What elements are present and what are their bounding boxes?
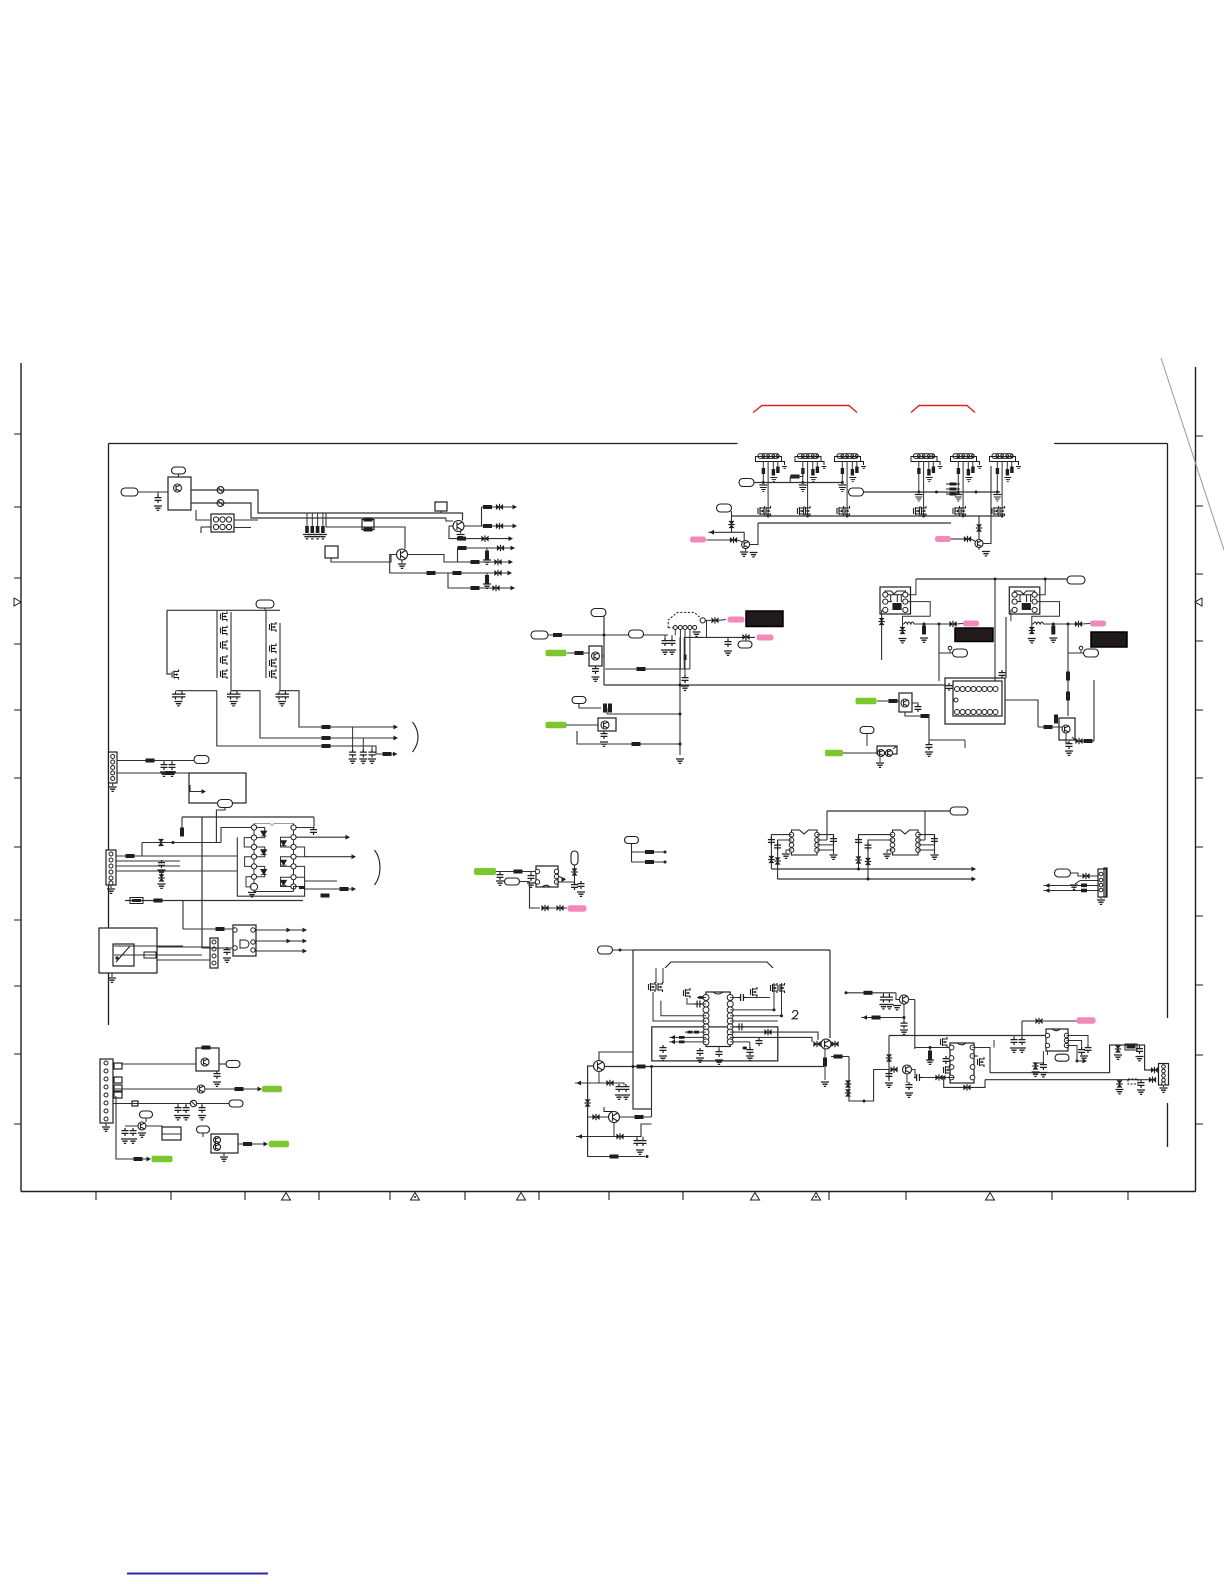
discrete fet xyxy=(656,982,663,992)
callout black 1 xyxy=(746,611,783,627)
capacitor xyxy=(158,860,165,868)
wire xyxy=(888,993,890,996)
wire xyxy=(893,746,897,749)
wire bus A xyxy=(754,482,843,484)
connector pins xyxy=(212,940,216,944)
wire stub bus xyxy=(305,512,323,514)
wire xyxy=(202,947,233,949)
ground xyxy=(965,478,972,482)
resistor xyxy=(823,1058,827,1067)
capacitor xyxy=(756,1038,763,1046)
net label VCC xyxy=(256,600,274,608)
wire drain rail 2 xyxy=(279,623,281,691)
ground xyxy=(1070,885,1078,889)
wire xyxy=(737,540,742,542)
junction xyxy=(743,1047,746,1050)
wire xyxy=(812,462,814,470)
capacitor xyxy=(811,469,814,476)
ground xyxy=(994,497,1001,501)
switch box xyxy=(99,928,157,973)
junction xyxy=(619,949,622,952)
capacitor xyxy=(601,731,608,739)
diode xyxy=(1033,1062,1039,1069)
wire xyxy=(994,579,996,681)
wire xyxy=(642,1137,644,1140)
ground xyxy=(1039,1073,1047,1077)
wire xyxy=(632,851,666,853)
junction xyxy=(996,491,999,494)
wire xyxy=(978,548,980,551)
resistor xyxy=(383,752,392,756)
net label vertical xyxy=(571,851,578,865)
wire xyxy=(632,861,666,863)
red callout arc 2 xyxy=(911,406,975,413)
wire bus D xyxy=(758,522,951,524)
resistor pack xyxy=(946,483,960,485)
blue footer line xyxy=(127,1573,268,1575)
wire xyxy=(1067,1036,1089,1047)
arrow xyxy=(393,752,398,757)
resistor xyxy=(791,475,800,479)
jumper xyxy=(132,1101,138,1106)
resistor xyxy=(340,887,349,891)
wire xyxy=(605,668,690,670)
junction xyxy=(773,1008,776,1011)
wire out xyxy=(305,856,352,858)
stair right xyxy=(296,847,305,877)
resistor xyxy=(922,626,926,635)
wire xyxy=(918,462,920,493)
capacitor xyxy=(179,692,186,700)
capacitor xyxy=(915,704,922,712)
wire xyxy=(730,997,738,999)
capacitor xyxy=(762,468,765,474)
net label xyxy=(1055,869,1071,877)
resistor xyxy=(694,1031,699,1034)
transistor array Q645 xyxy=(221,640,228,650)
junction xyxy=(923,623,926,626)
wire gate rail 2 xyxy=(265,610,267,678)
wire long xyxy=(588,1066,594,1157)
fet xyxy=(941,1037,948,1047)
wire xyxy=(817,849,834,851)
wire top xyxy=(827,810,950,812)
wire row4 xyxy=(116,1096,148,1159)
junction xyxy=(922,515,925,518)
transistor Q2 xyxy=(453,521,464,532)
ground xyxy=(750,553,758,557)
wire xyxy=(685,1031,706,1033)
ground xyxy=(1016,467,1021,469)
resistor xyxy=(427,571,436,575)
wire xyxy=(157,946,210,948)
diode D xyxy=(261,831,267,836)
transistor xyxy=(959,506,966,516)
junction xyxy=(679,713,682,716)
wire xyxy=(620,1116,652,1118)
wire xyxy=(105,1123,107,1126)
wire xyxy=(577,731,680,744)
inductor L1 xyxy=(904,622,914,624)
transistor Q62 xyxy=(821,1039,831,1049)
wire xyxy=(163,761,165,763)
wire xyxy=(896,993,899,1000)
net label xyxy=(953,649,968,657)
junction xyxy=(841,481,844,484)
resistor xyxy=(154,899,163,903)
diode xyxy=(684,655,687,661)
transistor Q51a xyxy=(878,750,885,757)
wire xyxy=(116,865,180,867)
wire xyxy=(773,993,775,1010)
resistor xyxy=(645,850,654,854)
wire fan3 xyxy=(449,526,510,539)
wire xyxy=(923,462,925,517)
resistor xyxy=(1044,725,1053,729)
wire xyxy=(905,712,921,716)
diode xyxy=(556,905,563,911)
transistor Q60 xyxy=(594,1061,605,1072)
diode xyxy=(606,1080,613,1086)
wire xyxy=(932,462,934,467)
capacitor xyxy=(774,843,781,851)
wire xyxy=(730,1009,774,1011)
ground xyxy=(168,772,176,776)
wire fan5 xyxy=(458,561,511,563)
ground xyxy=(925,752,933,756)
ground xyxy=(1097,900,1105,904)
wire gate rail 1 xyxy=(216,610,218,678)
ground xyxy=(760,488,767,492)
wire xyxy=(557,881,575,883)
arrow xyxy=(562,877,567,882)
callout black 2 xyxy=(955,628,993,642)
diode D xyxy=(261,850,267,855)
bracket xyxy=(413,722,419,752)
wire xyxy=(1043,623,1076,625)
notch xyxy=(957,1043,966,1045)
ground xyxy=(879,1005,887,1009)
ground xyxy=(659,1056,667,1060)
ground xyxy=(822,467,827,469)
ground xyxy=(955,497,962,501)
transistor array Q660 xyxy=(221,655,228,665)
junction xyxy=(806,515,809,518)
wire xyxy=(142,842,221,844)
capacitor xyxy=(999,670,1006,678)
wire xyxy=(1117,1045,1119,1046)
U1 gnd pin xyxy=(250,883,257,890)
transistor array Q648 xyxy=(270,644,277,654)
ground xyxy=(681,686,689,690)
diode D xyxy=(261,869,267,874)
ground xyxy=(782,467,787,469)
bottom tie xyxy=(254,887,300,892)
capacitor xyxy=(360,750,367,758)
transistor array Q674 xyxy=(270,669,277,679)
wire xyxy=(841,462,843,483)
pin chain right xyxy=(293,824,295,887)
capacitor xyxy=(967,469,970,476)
capacitor xyxy=(682,675,689,683)
wire xyxy=(669,1036,706,1038)
wire xyxy=(116,870,237,872)
frame left xyxy=(108,444,110,1026)
diode xyxy=(711,617,718,623)
wire xyxy=(653,992,706,1021)
ground xyxy=(248,893,256,897)
arrow gnd xyxy=(1075,881,1080,885)
wire xyxy=(888,1036,890,1082)
pin header CN8 xyxy=(953,454,974,459)
resistor xyxy=(1054,715,1058,724)
diode xyxy=(585,1099,591,1106)
wire xyxy=(706,620,708,637)
wire xyxy=(574,855,576,882)
input label xyxy=(121,488,138,496)
ferrite xyxy=(1081,884,1087,888)
header socket xyxy=(911,457,937,462)
ground xyxy=(174,1116,182,1120)
arrow xyxy=(972,877,977,882)
ground xyxy=(839,488,846,492)
capacitor xyxy=(1019,1037,1026,1045)
ground xyxy=(715,1060,723,1064)
transistor Q23a xyxy=(214,1137,221,1144)
ground xyxy=(483,560,491,564)
transistor Q21 xyxy=(197,1085,205,1093)
capacitor xyxy=(161,762,168,770)
coil pins xyxy=(1012,592,1017,597)
ground xyxy=(108,978,116,982)
ground xyxy=(885,1083,893,1087)
capacitor xyxy=(841,468,844,474)
wire pair A xyxy=(730,1032,818,1040)
shield Q40 xyxy=(589,646,602,666)
connector pins xyxy=(104,1061,108,1065)
resistor xyxy=(1066,692,1070,701)
wire xyxy=(1032,602,1060,624)
red callout arc 1 xyxy=(753,406,857,413)
wire bus1 xyxy=(191,490,463,521)
net label xyxy=(140,1111,153,1118)
capacitor xyxy=(662,638,669,646)
wire xyxy=(606,708,608,714)
shield Q23 xyxy=(211,1134,238,1153)
wire xyxy=(993,1040,995,1048)
wire xyxy=(234,527,251,529)
wire xyxy=(401,560,403,563)
wire xyxy=(460,532,462,534)
arrow xyxy=(513,524,518,529)
resistor xyxy=(635,1115,644,1119)
capacitor xyxy=(695,1001,703,1008)
resistor xyxy=(608,704,612,713)
ground xyxy=(1018,1048,1026,1052)
resistor xyxy=(575,651,584,655)
capacitor xyxy=(528,873,535,881)
ground xyxy=(883,854,891,858)
wire xyxy=(929,1048,931,1053)
resistor xyxy=(458,546,467,550)
wire xyxy=(598,1072,600,1084)
wire xyxy=(201,1104,203,1106)
wire fan1 xyxy=(482,506,516,508)
diode xyxy=(158,839,164,846)
capacitor xyxy=(1040,1062,1047,1070)
wire xyxy=(181,817,183,829)
highlight green 6 xyxy=(856,698,877,705)
wire xyxy=(903,1004,905,1022)
wire xyxy=(909,999,915,1001)
capacitor xyxy=(932,467,935,474)
wire xyxy=(1001,462,1003,517)
resistor xyxy=(483,505,492,509)
wire xyxy=(1067,1041,1082,1049)
capacitor xyxy=(349,750,356,758)
capacitor xyxy=(175,1105,182,1113)
IC U4 xyxy=(706,992,730,1047)
U5 pins right xyxy=(970,1045,975,1050)
wire xyxy=(826,811,828,840)
diode xyxy=(890,1067,897,1073)
wire xyxy=(951,538,964,540)
junction xyxy=(744,1047,747,1050)
arrow xyxy=(352,854,357,859)
resistor xyxy=(1051,626,1055,635)
resistor xyxy=(235,1087,244,1091)
discrete fet xyxy=(778,983,785,993)
ground xyxy=(1049,638,1057,642)
capacitor xyxy=(199,1105,206,1113)
resistor xyxy=(485,551,489,560)
capacitor xyxy=(906,1082,913,1090)
capacitor xyxy=(725,639,732,647)
ground xyxy=(849,478,856,482)
IC U5 xyxy=(950,1043,974,1083)
wire xyxy=(1080,650,1082,654)
wire xyxy=(1013,1036,1015,1039)
ground xyxy=(938,467,943,469)
net label xyxy=(229,1100,243,1107)
wire xyxy=(1022,1020,1035,1022)
dual transistor box xyxy=(877,746,897,754)
wire xyxy=(579,704,601,709)
resistor xyxy=(322,736,331,740)
connector CN5 xyxy=(1098,869,1106,897)
outer boundary xyxy=(237,837,304,896)
notch xyxy=(1052,1029,1060,1031)
resistor xyxy=(514,870,523,874)
wire bus2 xyxy=(191,503,446,518)
resistor xyxy=(632,742,641,746)
resistor xyxy=(126,854,135,858)
net label xyxy=(505,878,520,885)
junction xyxy=(664,861,667,864)
diode xyxy=(976,524,982,531)
diode D xyxy=(281,880,287,885)
frame top xyxy=(109,443,1168,445)
coil core xyxy=(1022,603,1031,610)
wire xyxy=(786,850,792,853)
wire xyxy=(614,1124,652,1137)
resistor xyxy=(637,667,646,671)
transistor array Q674 xyxy=(221,669,228,679)
wire row1 xyxy=(122,1063,196,1065)
net label xyxy=(218,800,233,808)
capacitor xyxy=(855,467,858,474)
foot xyxy=(821,462,824,466)
capacitor xyxy=(616,1084,623,1092)
header pins xyxy=(957,455,960,458)
wire xyxy=(1157,1069,1159,1071)
arrow xyxy=(511,546,516,551)
wire xyxy=(603,731,605,732)
page border left xyxy=(20,363,22,1192)
foot xyxy=(861,462,864,466)
U6 pins right xyxy=(1064,1033,1068,1037)
diode xyxy=(831,1041,838,1047)
wire xyxy=(730,1041,750,1043)
wire xyxy=(449,525,453,527)
header pins xyxy=(762,455,765,458)
arrow xyxy=(264,1142,269,1147)
highlight green 1 xyxy=(262,1086,282,1093)
wire xyxy=(190,785,202,792)
resistor xyxy=(1066,672,1070,681)
wire row3 xyxy=(113,1103,229,1105)
capacitor xyxy=(838,484,846,486)
wire xyxy=(446,518,453,521)
net label xyxy=(194,756,209,764)
diode xyxy=(572,868,578,875)
junction xyxy=(1052,623,1055,626)
ground xyxy=(740,552,748,556)
highlight green 7 xyxy=(825,750,843,757)
ground xyxy=(368,759,376,763)
U1 pins left xyxy=(251,825,256,830)
wire xyxy=(1047,1051,1049,1055)
capacitor xyxy=(946,683,953,691)
wire xyxy=(772,462,774,470)
net label xyxy=(531,631,548,639)
capacitor xyxy=(1010,467,1013,474)
junction xyxy=(917,491,920,494)
header pins xyxy=(801,455,804,458)
coil pins xyxy=(883,592,888,597)
wire xyxy=(697,997,706,999)
connector pins xyxy=(111,755,115,759)
register triangles bottom xyxy=(282,1193,291,1201)
transistor xyxy=(992,506,999,516)
wire pair B xyxy=(730,1037,812,1042)
wire xyxy=(730,1020,778,1022)
header pins xyxy=(996,455,999,458)
ground xyxy=(931,855,939,859)
wire xyxy=(972,462,974,467)
diode xyxy=(1075,621,1082,627)
wire xyxy=(1052,624,1054,627)
highlight pink 1 xyxy=(690,537,706,543)
wire xyxy=(964,740,966,748)
resistor xyxy=(216,927,225,931)
wire xyxy=(971,539,975,541)
ground xyxy=(527,883,535,887)
diode xyxy=(935,1075,942,1081)
capacitor xyxy=(738,994,746,1001)
IC U6 xyxy=(1046,1029,1068,1051)
wire xyxy=(636,1137,638,1140)
